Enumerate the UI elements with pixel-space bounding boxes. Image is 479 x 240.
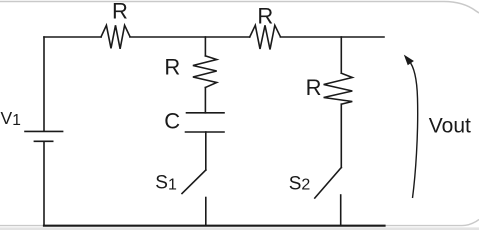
battery V1 short plate <box>34 140 52 142</box>
wire left branch upper (top rail to battery) <box>43 37 45 131</box>
frame bottom border <box>0 220 479 226</box>
switch S2 blade <box>315 168 342 199</box>
resistor R1 (top left, horizontal) <box>101 25 130 49</box>
wire right branch top (rail to resistor) <box>340 37 342 73</box>
wire right branch bottom (switch S2 to bottom rail) <box>340 195 342 226</box>
wire middle branch (resistor to capacitor) <box>204 88 206 113</box>
wire top rail left segment <box>44 36 101 38</box>
resistor R2 (top right, horizontal) <box>250 25 281 49</box>
wire top rail middle segment <box>130 36 250 38</box>
Vout arrowhead <box>405 56 413 65</box>
wire middle branch bottom (switch S1 to bottom rail) <box>205 198 207 226</box>
svg-text:R: R <box>112 0 128 23</box>
resistor R4 (right, vertical) <box>324 73 353 104</box>
battery V1 long plate <box>25 130 63 132</box>
svg-text:S1: S1 <box>155 173 177 194</box>
wire middle branch (capacitor to switch S1) <box>205 132 207 170</box>
wire left branch lower (battery to bottom rail) <box>43 141 45 225</box>
resistor R3 (middle, vertical) <box>193 56 217 88</box>
svg-text:C: C <box>164 109 180 134</box>
svg-text:R: R <box>257 3 273 28</box>
capacitor C top plate <box>187 112 225 114</box>
svg-text:R: R <box>164 55 180 80</box>
Vout arrow arc <box>409 61 418 199</box>
wire right branch (resistor to switch S2) <box>340 104 342 167</box>
svg-text:R: R <box>306 75 322 100</box>
wire top rail right segment to stub end <box>280 36 384 38</box>
capacitor C bottom plate <box>186 131 225 133</box>
frame bottom strip <box>0 227 479 230</box>
switch S1 blade <box>182 170 206 194</box>
svg-text:V1: V1 <box>1 108 21 129</box>
svg-text:S2: S2 <box>289 173 311 194</box>
wire bottom rail <box>44 225 385 227</box>
svg-text:Vout: Vout <box>429 114 471 137</box>
wire middle branch top (rail to resistor) <box>204 37 206 56</box>
frame top border <box>0 2 479 14</box>
